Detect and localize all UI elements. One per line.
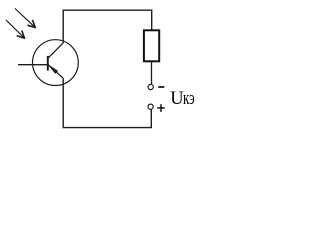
base lead <box>18 64 48 66</box>
wire: collector up, across top, down to resistor <box>63 10 152 43</box>
plus sign <box>157 104 165 112</box>
collector diagonal <box>48 43 63 58</box>
light arrow 1 <box>15 9 35 28</box>
terminal (minus) <box>148 84 153 89</box>
light arrow 2 <box>6 20 25 38</box>
emitter arrowhead (points toward base) <box>48 65 58 74</box>
base bar <box>47 56 49 71</box>
wire: resistor bottom to minus terminal <box>151 62 153 85</box>
emitter diagonal <box>48 65 63 78</box>
resistor R (load) <box>144 30 159 61</box>
minus sign <box>158 86 164 88</box>
label Uкэ (collector-emitter voltage) <box>170 92 199 106</box>
phototransistor body circle <box>33 40 79 86</box>
terminal (plus) <box>148 104 153 109</box>
wire: plus terminal down, across bottom, up to emitter <box>63 78 151 127</box>
